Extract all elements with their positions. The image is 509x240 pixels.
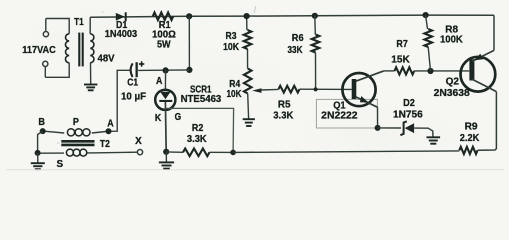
wire R8 bottom — [428, 47, 430, 71]
wire emitter junction to D2 — [378, 127, 401, 129]
wire R6 bottom — [315, 53, 317, 90]
wire X to T2 secondary — [91, 151, 138, 154]
svg-text:R6: R6 — [292, 33, 304, 44]
resistor R1 — [153, 13, 173, 21]
svg-text:10K: 10K — [227, 89, 243, 100]
node SCR anode junction — [163, 67, 169, 73]
wire C1 horizontal — [138, 69, 189, 72]
wire SCR anode — [164, 70, 166, 89]
svg-text:S: S — [57, 159, 64, 170]
svg-text:A: A — [107, 118, 113, 129]
wire bottom rail mid — [210, 151, 234, 153]
wire B to ground — [38, 131, 43, 153]
svg-text:G: G — [175, 112, 182, 123]
node R1 right junction — [186, 13, 192, 19]
wire T1 secondary top to rail — [89, 17, 91, 34]
svg-text:T1: T1 — [74, 17, 84, 28]
svg-text:1N756: 1N756 — [393, 109, 423, 120]
svg-text:5W: 5W — [157, 40, 171, 51]
ground SCR cathode — [165, 152, 167, 162]
resistor R9 — [459, 147, 477, 154]
scan artifact line — [6, 169, 504, 171]
wire T1 secondary bottom to ground — [90, 63, 92, 85]
transformer T2 primary winding — [67, 129, 74, 136]
zener diode D2 — [400, 121, 406, 135]
Q1 label box — [316, 99, 377, 128]
wire bottom rail left — [166, 151, 183, 153]
wire right rail top — [493, 15, 495, 50]
svg-text:100K: 100K — [440, 35, 464, 46]
wire primary top — [46, 19, 69, 34]
resistor R7 — [395, 67, 415, 74]
svg-text:2.2K: 2.2K — [460, 133, 480, 144]
svg-text:3.3K: 3.3K — [187, 134, 208, 145]
node R6 base junction — [314, 87, 318, 91]
svg-text:R7: R7 — [396, 39, 408, 50]
node SCR cathode junction — [163, 149, 169, 155]
svg-text:33K: 33K — [288, 45, 304, 56]
ground R4 — [243, 118, 255, 120]
svg-text:3.3K: 3.3K — [273, 111, 294, 122]
ground T1 secondary — [84, 84, 97, 86]
terminal X — [137, 150, 142, 155]
node B ground junction — [35, 150, 41, 156]
svg-text:1N4003: 1N4003 — [105, 29, 138, 40]
svg-text:10 µF: 10 µF — [121, 92, 146, 103]
svg-text:P: P — [73, 117, 79, 128]
transformer T2 secondary winding — [66, 149, 73, 156]
svg-text:10K: 10K — [223, 42, 240, 53]
wire primary bottom — [45, 63, 69, 78]
ground D2 — [427, 136, 441, 138]
svg-text:R9: R9 — [465, 121, 478, 132]
svg-text:2N2222: 2N2222 — [321, 111, 358, 122]
transformer T1 primary winding — [65, 34, 69, 63]
R4 wiper arrow — [252, 88, 261, 93]
wire R4 to ground — [247, 94, 250, 119]
transistor Q2 — [461, 57, 496, 92]
wire bottom rail long — [233, 151, 459, 153]
resistor R3 — [244, 30, 252, 49]
node R3 top junction — [244, 13, 250, 19]
wire Q1 emitter down — [377, 107, 379, 128]
potentiometer R4 — [244, 69, 252, 94]
resistor R2 — [183, 149, 210, 157]
svg-text:R5: R5 — [278, 99, 291, 110]
wire R3 top — [246, 16, 248, 30]
wire R5 to Q1 base — [300, 88, 352, 90]
svg-text:NTE5463: NTE5463 — [181, 94, 222, 105]
wire SCR gate loop — [166, 108, 234, 152]
117VAC source terminal bottom — [43, 61, 48, 66]
node R8 bottom junction — [427, 68, 433, 74]
wire R6 top — [314, 16, 317, 35]
resistor R5 — [279, 86, 300, 93]
diode D1 — [116, 13, 125, 21]
transformer T1 core — [78, 33, 80, 67]
transformer T1 secondary winding — [90, 34, 94, 63]
resistor R6 — [312, 35, 320, 53]
svg-text:T2: T2 — [100, 139, 110, 150]
svg-text:K: K — [155, 113, 162, 124]
ground T2 B — [37, 153, 39, 163]
svg-text:R3: R3 — [226, 31, 237, 42]
wire right rail bottom — [478, 92, 497, 151]
wire SCR cathode — [164, 102, 167, 152]
SCR1 U1 — [155, 90, 175, 110]
transistor Q1 — [342, 73, 375, 106]
svg-text:Q2: Q2 — [446, 77, 460, 88]
svg-text:C1: C1 — [127, 78, 138, 89]
wire top rail — [90, 15, 494, 17]
wire C1 left — [109, 70, 131, 131]
capacitor C1 — [131, 63, 133, 77]
svg-text:B: B — [38, 117, 45, 128]
117VAC source terminal top — [43, 31, 48, 36]
node R2 right junction — [230, 150, 236, 156]
svg-text:2N3638: 2N3638 — [434, 88, 471, 99]
node R6 top junction — [312, 13, 318, 19]
svg-text:D2: D2 — [403, 98, 415, 109]
node C1 right junction — [186, 67, 192, 73]
svg-text:X: X — [135, 136, 142, 147]
wire Q1 collector to R7 — [384, 70, 395, 72]
resistor R8 — [424, 29, 432, 47]
svg-text:15K: 15K — [391, 54, 410, 65]
svg-text:48V: 48V — [98, 53, 115, 64]
wire R8 top — [426, 15, 428, 29]
wire R1 junction down to C1 node — [188, 16, 190, 70]
transformer T2 core — [61, 140, 94, 143]
wire R3 to R4 — [247, 49, 249, 69]
wire R7 to Q2 base — [414, 70, 469, 72]
node B terminal — [40, 128, 46, 134]
wire D2 anode to ground — [414, 128, 433, 137]
svg-text:A: A — [156, 76, 162, 87]
C1 plus sign — [139, 63, 144, 65]
svg-text:R2: R2 — [192, 123, 204, 134]
node R8 top junction — [423, 12, 429, 18]
svg-text:117VAC: 117VAC — [22, 45, 56, 56]
node A terminal — [106, 128, 112, 134]
node Q1 emitter junction — [375, 125, 381, 131]
